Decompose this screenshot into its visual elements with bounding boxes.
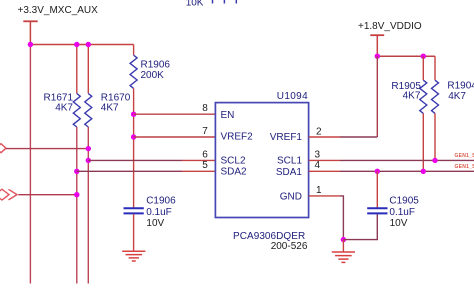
power symbol +1.8V stub xyxy=(376,35,378,56)
wire R1906 top from bus xyxy=(133,45,135,56)
capacitor C1906 xyxy=(124,207,144,209)
svg-text:VREF1: VREF1 xyxy=(270,132,303,143)
resistor R1905 xyxy=(420,80,427,113)
junction conn2/R1671 xyxy=(74,192,79,197)
junction EN node xyxy=(131,112,136,117)
svg-text:0.1uF: 0.1uF xyxy=(146,207,172,218)
resistor R1904 xyxy=(432,80,439,113)
svg-text:2: 2 xyxy=(316,126,322,137)
svg-text:4K7: 4K7 xyxy=(403,91,421,102)
ground below GND node xyxy=(342,240,344,252)
power symbol +3.3V stub xyxy=(29,21,31,44)
wire GND node to C1905 bottom xyxy=(343,214,377,240)
power symbol +3.3V bar xyxy=(23,20,37,22)
svg-text:+1.8V_VDDIO: +1.8V_VDDIO xyxy=(358,21,422,32)
svg-text:C1906: C1906 xyxy=(146,195,176,206)
svg-text:4K7: 4K7 xyxy=(101,102,119,113)
wire R1671 bottom / SDA2 vertical xyxy=(76,127,78,284)
ground below C1906 xyxy=(122,251,145,261)
svg-text:PCA9306DQER: PCA9306DQER xyxy=(233,231,305,242)
wire pin5 SDA2 xyxy=(77,170,182,172)
svg-text:200K: 200K xyxy=(141,70,165,81)
svg-text:7: 7 xyxy=(202,126,208,137)
svg-text:3: 3 xyxy=(315,149,321,160)
wire R1906 bottom to EN node xyxy=(133,88,135,114)
svg-text:10K: 10K xyxy=(186,0,204,9)
svg-text:SCL2: SCL2 xyxy=(221,155,246,166)
svg-text:200-526: 200-526 xyxy=(271,241,308,252)
junction SDA1/R1905 xyxy=(421,169,426,174)
wire pin8 EN xyxy=(134,113,216,115)
svg-text:10V: 10V xyxy=(390,218,408,229)
svg-text:GEN1_S: GEN1_S xyxy=(455,153,474,159)
wire R1905 bottom to SDA1 xyxy=(422,113,424,171)
IC U1094 box xyxy=(215,103,308,218)
svg-text:C1905: C1905 xyxy=(389,195,419,206)
capacitor C1905 xyxy=(367,207,387,209)
wire EN node vertical to C1906 xyxy=(133,114,135,207)
wire VREF1 vertical xyxy=(376,56,378,137)
wire connector2 to R1671 xyxy=(18,194,77,196)
wire C1905 top xyxy=(376,171,378,207)
svg-text:R1906: R1906 xyxy=(141,60,171,71)
wire left vertical rail x=30 xyxy=(29,45,31,284)
power symbol +1.8V bar xyxy=(370,34,384,36)
wire R1670 bottom / SCL2 vertical xyxy=(87,127,89,284)
junction VREF2 node xyxy=(131,134,136,139)
connector left SCL2 xyxy=(0,144,6,153)
junction SDA1/C1905 xyxy=(375,169,380,174)
svg-text:GEN1_S: GEN1_S xyxy=(455,164,474,170)
wire +1.8V bus xyxy=(377,55,435,57)
wire +3.3V bus xyxy=(30,44,134,46)
wire R1670 top xyxy=(87,45,89,94)
svg-text:5: 5 xyxy=(202,160,208,171)
junction bus/left rail xyxy=(28,42,33,47)
svg-text:EN: EN xyxy=(221,110,235,121)
svg-text:GND: GND xyxy=(280,191,302,202)
wire pin4 SDA1 to right edge xyxy=(309,170,340,172)
junction SCL1/R1904 xyxy=(432,158,437,163)
wire R1671 top xyxy=(76,45,78,94)
junction 1.8V/R1905 xyxy=(421,54,426,59)
svg-text:U1094: U1094 xyxy=(277,91,308,102)
junction GND node xyxy=(341,237,346,242)
svg-text:VREF2: VREF2 xyxy=(221,132,254,143)
wire pin7 VREF2 xyxy=(134,136,216,138)
junction SCL2/R1670 xyxy=(86,146,91,151)
wire R1905 top xyxy=(422,56,424,80)
resistor R1906 xyxy=(130,55,137,88)
svg-text:6: 6 xyxy=(202,149,208,160)
wire C1906 bottom to ground xyxy=(133,214,135,251)
resistor stub ticks at top edge xyxy=(213,0,237,4)
junction 1.8V/VREF1 xyxy=(375,54,380,59)
svg-text:0.1uF: 0.1uF xyxy=(389,207,415,218)
junction SDA2/R1671 xyxy=(74,169,79,174)
wire pin6 SCL2 xyxy=(88,159,182,161)
wire R1904 top corner xyxy=(434,56,436,80)
svg-text:8: 8 xyxy=(202,103,208,114)
junction bus/R1670 xyxy=(86,42,91,47)
svg-text:+3.3V_MXC_AUX: +3.3V_MXC_AUX xyxy=(18,5,99,16)
svg-text:10V: 10V xyxy=(146,218,164,229)
svg-text:SDA2: SDA2 xyxy=(221,167,248,178)
svg-text:1: 1 xyxy=(316,185,322,196)
svg-text:4: 4 xyxy=(315,160,321,171)
wire R1904 bottom to SCL1 xyxy=(434,113,436,160)
junction SCL2 to pin6 xyxy=(86,158,91,163)
svg-text:R1904: R1904 xyxy=(447,81,474,92)
svg-text:SDA1: SDA1 xyxy=(276,167,303,178)
connector left SDA2 xyxy=(0,189,9,200)
wire pin1 GND xyxy=(309,195,340,197)
svg-text:4K7: 4K7 xyxy=(448,91,466,102)
wire connector1 to R1670 xyxy=(6,148,89,150)
svg-text:SCL1: SCL1 xyxy=(277,156,302,167)
junction bus/R1671 xyxy=(74,42,79,47)
svg-text:4K7: 4K7 xyxy=(55,102,73,113)
wire pin2 VREF1 xyxy=(340,136,377,138)
resistor R1670 xyxy=(85,94,92,128)
resistor R1671 xyxy=(73,94,80,128)
wire pin3 SCL1 to right edge xyxy=(309,159,340,161)
